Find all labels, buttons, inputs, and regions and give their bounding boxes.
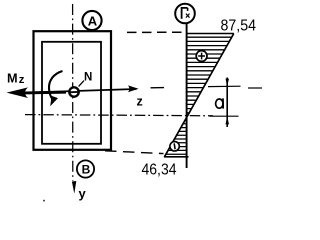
moment arrow Mz head <box>7 87 29 98</box>
sigma diagram hypotenuse <box>164 34 233 157</box>
svg-text:N: N <box>84 72 92 84</box>
sigma diagram: upper triangle hatching <box>186 37 235 113</box>
dimension a: top arrowhead <box>226 79 230 87</box>
minus sign circle <box>170 142 179 151</box>
plus sign circle <box>196 51 207 62</box>
dimension a: bottom extension line <box>210 115 239 117</box>
moment arrow Mz shaft (thick) <box>25 91 66 95</box>
ink speck <box>43 200 45 202</box>
centerline vertical (section axis) <box>72 4 74 181</box>
sigma diagram: lower triangle hatching <box>163 120 188 154</box>
moment arc <box>49 71 63 100</box>
dashed projection line top fiber <box>127 31 186 33</box>
moment arc arrowhead <box>50 96 58 106</box>
sigma diagram top edge <box>187 33 234 35</box>
z line through node N <box>69 91 80 93</box>
section inner rectangle <box>42 42 101 144</box>
z axis line <box>14 89 137 93</box>
svg-text:A: A <box>88 13 98 28</box>
dimension a: bottom arrowhead <box>226 116 230 124</box>
dimension a: vertical line <box>226 78 228 128</box>
label a <box>216 98 224 108</box>
point A circle <box>82 11 101 30</box>
dashed projection line bottom fiber <box>105 151 164 154</box>
dimension a: right dash continuation <box>248 87 262 89</box>
svg-text:B: B <box>82 163 91 177</box>
svg-text:M: M <box>7 72 18 86</box>
dimension a: top extension line <box>208 85 241 87</box>
svg-text:y: y <box>79 186 87 201</box>
sigma diagram base edge <box>164 156 189 158</box>
neutral axis line n-n (dash-dot horizontal) <box>25 115 213 116</box>
z axis arrowhead <box>128 85 139 92</box>
point B circle <box>77 160 94 177</box>
y axis arrowhead <box>72 181 76 194</box>
dimension a: extension dash left of triangle at z level <box>151 87 165 89</box>
section outer rectangle <box>34 31 112 150</box>
svg-text:87,54: 87,54 <box>221 18 257 35</box>
sigma_x symbol circle <box>175 4 195 24</box>
svg-text:46,34: 46,34 <box>142 162 177 179</box>
node N circle <box>69 87 78 96</box>
svg-text:z: z <box>19 74 25 86</box>
sigma axis vertical <box>186 24 188 168</box>
svg-text:z: z <box>137 95 143 109</box>
leader line to N <box>79 81 84 87</box>
